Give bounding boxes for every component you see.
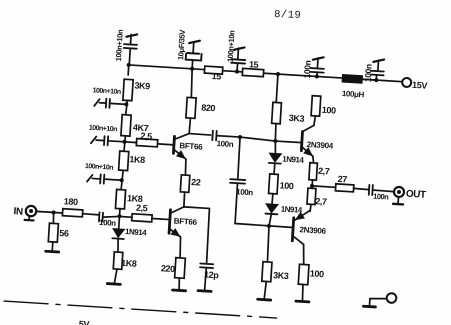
svg-text:15: 15 [211,71,221,82]
svg-text:27: 27 [337,174,347,185]
svg-text:1N914: 1N914 [282,155,305,165]
svg-text:100: 100 [279,180,294,191]
svg-text:100n: 100n [99,218,117,228]
svg-text:1K8: 1K8 [121,258,137,269]
svg-text:1K8: 1K8 [129,154,145,165]
svg-text:12p: 12p [204,269,220,280]
svg-text:2N3904: 2N3904 [306,140,334,151]
svg-text:100n: 100n [216,139,234,149]
svg-text:BFT66: BFT66 [174,216,198,226]
svg-text:100n: 100n [236,187,254,197]
svg-text:3K9: 3K9 [134,80,150,91]
svg-text:5V: 5V [79,319,90,325]
svg-text:100n: 100n [363,64,374,83]
svg-text:100: 100 [322,105,337,116]
svg-text:1N914: 1N914 [125,227,148,237]
svg-text:3K3: 3K3 [273,270,289,281]
svg-text:2,5: 2,5 [136,203,148,214]
svg-text:180: 180 [63,196,78,207]
svg-text:2N3906: 2N3906 [299,225,327,236]
svg-text:100μH: 100μH [342,89,365,99]
svg-text:820: 820 [201,102,216,113]
svg-text:3K3: 3K3 [289,113,305,124]
svg-text:100n: 100n [302,60,313,79]
svg-text:22: 22 [191,177,201,188]
svg-text:BFT66: BFT66 [179,141,203,151]
svg-text:15V: 15V [412,80,428,91]
svg-text:2,7: 2,7 [315,196,327,207]
svg-text:2,5: 2,5 [140,131,152,142]
svg-text:56: 56 [59,228,69,239]
svg-text:8/19: 8/19 [274,9,302,22]
svg-text:100n: 100n [373,192,390,202]
svg-text:100: 100 [310,268,325,279]
svg-text:IN: IN [13,206,23,218]
svg-text:10μF/35V: 10μF/35V [176,28,187,60]
svg-text:15: 15 [249,59,259,70]
svg-text:2,7: 2,7 [318,166,330,177]
svg-text:OUT: OUT [406,189,427,201]
svg-text:220: 220 [161,263,176,274]
